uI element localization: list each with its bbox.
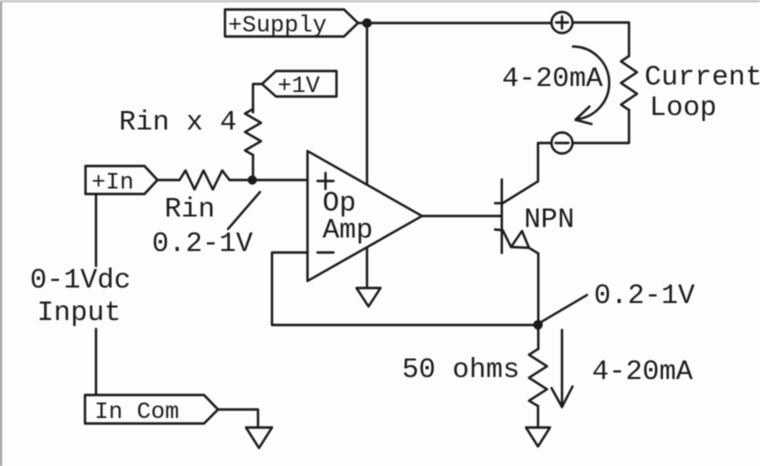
resistor Rin x 4 (245, 109, 261, 155)
leader line 0.2-1V left (228, 192, 260, 229)
junction node op-amp input (248, 175, 257, 184)
svg-text:4-20mA: 4-20mA (592, 357, 693, 388)
svg-text:Amp: Amp (323, 216, 373, 247)
svg-text:Input: Input (37, 298, 121, 329)
wire +In to Rin (158, 179, 180, 181)
svg-text:In Com: In Com (95, 399, 180, 426)
op-amp U1 (308, 151, 423, 281)
wire top right (573, 23, 630, 57)
resistor Rin (180, 171, 230, 190)
svg-text:4-20mA: 4-20mA (502, 64, 603, 95)
wire +1V to resistor (253, 84, 262, 112)
svg-text:Rin x 4: Rin x 4 (119, 108, 237, 139)
wire In Com to ground (218, 410, 258, 428)
flag +1V (262, 71, 337, 97)
svg-text:0.2-1V: 0.2-1V (152, 229, 253, 260)
current direction arc arrow (573, 47, 609, 125)
ground below In Com (246, 428, 272, 449)
resistor 50 ohms (529, 349, 547, 406)
svg-text:+Supply: +Supply (228, 13, 327, 40)
terminal minus circle (552, 133, 573, 154)
svg-text:Loop: Loop (650, 93, 717, 124)
wire node to op-amp input (230, 179, 308, 181)
svg-text:0.2-1V: 0.2-1V (594, 281, 695, 312)
flag +In (86, 166, 158, 194)
svg-text:0-1Vdc: 0-1Vdc (30, 266, 131, 297)
svg-text:Rin: Rin (165, 195, 215, 226)
ground below 50 ohms (526, 428, 550, 447)
svg-text:Current: Current (645, 63, 760, 94)
terminal plus circle (552, 12, 573, 33)
svg-text:50 ohms: 50 ohms (402, 355, 520, 386)
current arrow down 4-20mA (552, 330, 573, 407)
svg-text:+In: +In (92, 170, 134, 197)
resistor Current Loop (621, 56, 637, 110)
leader line 0.2-1V right (542, 295, 587, 322)
svg-text:NPN: NPN (524, 205, 574, 236)
transistor Q1 NPN (495, 180, 538, 254)
junction node emitter output (533, 320, 543, 330)
wire supply rail top (358, 22, 552, 24)
wire op-amp output to base (422, 215, 502, 217)
flag +Supply (225, 10, 358, 37)
wire resistor to ground (537, 406, 539, 428)
wire feedback loop (272, 253, 538, 326)
wire supply drop to ground (366, 23, 368, 288)
wire emitter down to node (537, 254, 539, 350)
svg-text:+1V: +1V (278, 73, 320, 100)
ground below op-amp (357, 288, 381, 307)
flag In Com (85, 395, 218, 424)
wire +In drop lower (95, 329, 97, 395)
wire +In drop upper (95, 194, 97, 266)
wire loop bottom (573, 110, 630, 143)
wire resistor to node (252, 155, 254, 180)
wire collector to minus terminal (538, 143, 552, 182)
junction node supply (362, 18, 372, 28)
